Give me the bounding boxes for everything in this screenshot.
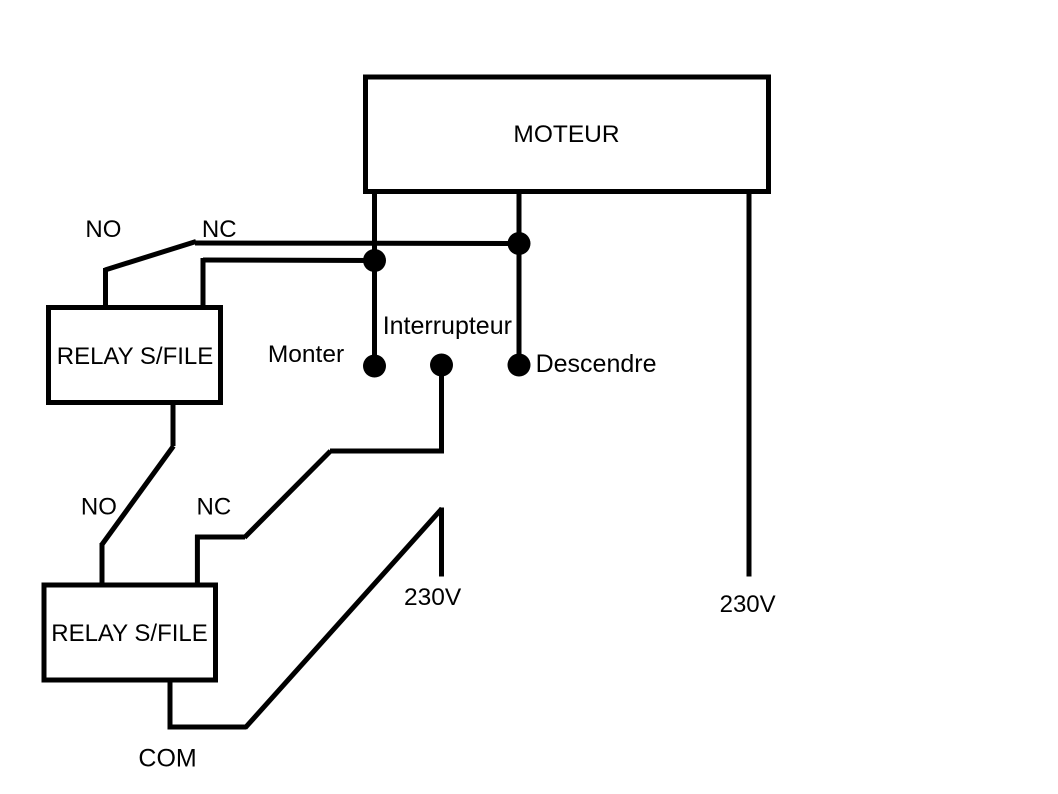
svg-text:NO: NO: [85, 216, 121, 243]
node interrupteur pole contact: [430, 354, 453, 377]
svg-text:RELAY S/FILE: RELAY S/FILE: [51, 620, 208, 647]
svg-text:Monter: Monter: [268, 341, 344, 368]
node Monter contact: [363, 355, 386, 378]
wire relay 1 NC stub horizontal to Monter column junction: [203, 258, 375, 264]
wire relay 2 COM terminal down: [168, 680, 173, 727]
svg-text:230V: 230V: [720, 591, 776, 618]
wire motor right terminal down to 230V supply: [747, 191, 752, 577]
svg-text:NC: NC: [197, 494, 232, 521]
wire NC contact of relay 1 to Descendre column junction: [195, 241, 519, 247]
svg-text:Interrupteur: Interrupteur: [383, 312, 512, 340]
svg-text:NO: NO: [81, 494, 117, 521]
wire relay 1 bottom terminal down: [171, 403, 176, 446]
wire relay 2 NC terminal stub: [195, 535, 200, 584]
wire interrupteur pole down: [439, 365, 444, 454]
wire horizontal segment to interrupteur pole: [330, 449, 442, 454]
svg-text:MOTEUR: MOTEUR: [513, 121, 619, 148]
wire COM diagonal up to 230V: [245, 509, 442, 729]
relay K2 RELAY S/FILE: [44, 585, 216, 680]
node junction on Descendre column (NC1 tie): [508, 232, 531, 255]
wire relay 2 NC diagonal up to interrupteur: [245, 451, 331, 538]
motor box U1 MOTEUR: [366, 77, 769, 192]
wire motor middle terminal down to Descendre node: [517, 191, 522, 365]
svg-text:RELAY S/FILE: RELAY S/FILE: [57, 343, 214, 370]
relay K1 RELAY S/FILE: [49, 308, 221, 403]
svg-text:COM: COM: [138, 745, 196, 773]
svg-text:Descendre: Descendre: [536, 350, 657, 378]
svg-text:230V: 230V: [404, 584, 462, 611]
wire relay 2 NC horizontal segment: [195, 535, 245, 540]
wire relay 1 NC terminal stub: [201, 258, 206, 307]
node Descendre contact: [508, 354, 531, 377]
wire motor left terminal down to Monter node: [372, 191, 377, 366]
wire relay 2 NO terminal stub: [100, 543, 105, 584]
wire relay 1 NO terminal stub: [103, 268, 108, 307]
wire relay 1 NO switch arm diagonal: [105, 242, 196, 271]
wire COM horizontal segment: [168, 725, 247, 730]
svg-text:NC: NC: [202, 216, 237, 243]
node junction on Monter column (NC1 tie): [363, 249, 386, 272]
wire diagonal relay 1 to relay 2 NO: [102, 446, 174, 545]
wire 230V supply stub: [439, 508, 444, 577]
